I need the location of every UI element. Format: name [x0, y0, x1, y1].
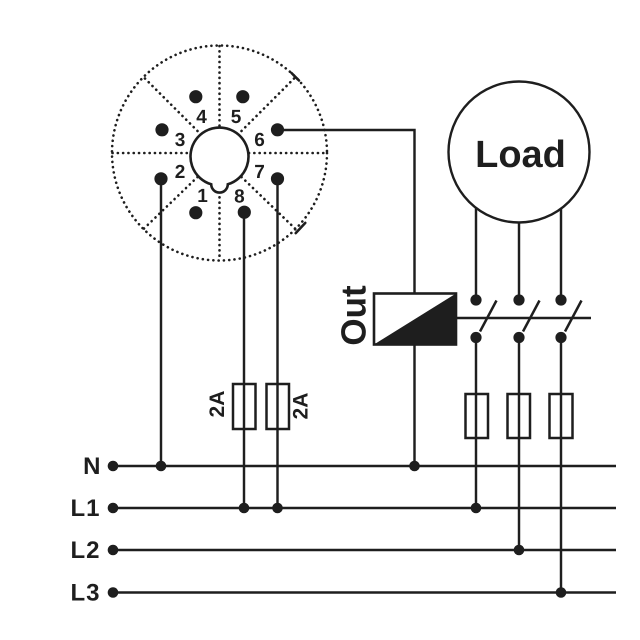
pin 4: [189, 90, 202, 103]
switch contact S2: [513, 294, 539, 343]
fuse F2: [267, 384, 290, 429]
wire load phase 2: [518, 180, 520, 300]
wire pin7 to fuse F2 to L1 bus: [276, 179, 278, 508]
wire pin2 to N bus: [160, 179, 162, 466]
socket sector dotted line SW: [144, 177, 198, 229]
socket sector dotted line SE: [242, 177, 296, 229]
pin 1: [189, 206, 202, 219]
svg-text:1: 1: [197, 186, 208, 207]
svg-text:N: N: [83, 453, 100, 480]
svg-text:2A: 2A: [206, 391, 229, 418]
pin 8: [238, 206, 251, 219]
bus N: [113, 465, 616, 467]
socket center keyway: [191, 128, 249, 193]
node L2 terminal: [108, 545, 119, 556]
socket sector dotted line bottom: [218, 192, 221, 260]
socket sector dotted line left: [113, 152, 191, 155]
socket sector dotted line NE: [242, 77, 296, 131]
switch contact S1: [470, 294, 496, 343]
socket outer circle long dash SE: [296, 223, 306, 233]
node N / relay junction: [409, 461, 420, 472]
node L3 / fuse F5 junction: [556, 587, 567, 598]
wire load phase 1: [475, 160, 477, 300]
svg-text:L2: L2: [70, 537, 100, 564]
node N / pin2 junction: [156, 461, 167, 472]
svg-text:6: 6: [254, 130, 265, 151]
wire load phase 3: [560, 160, 562, 300]
bus L1: [113, 507, 616, 509]
wire switch S2 to fuse F4 to L2: [518, 338, 520, 551]
node L1 terminal: [108, 503, 119, 514]
relay output triangle: [374, 294, 456, 345]
svg-text:4: 4: [196, 107, 207, 128]
svg-text:L3: L3: [70, 580, 100, 607]
pin 2: [154, 172, 167, 185]
svg-text:3: 3: [175, 130, 186, 151]
svg-text:Out: Out: [335, 285, 374, 346]
svg-text:2: 2: [175, 162, 186, 183]
bus L2: [113, 549, 616, 551]
fuse F1: [233, 384, 256, 429]
pin 3: [155, 123, 168, 136]
socket outer circle long dash NE: [292, 73, 300, 81]
svg-text:2A: 2A: [290, 393, 313, 420]
socket outer dotted circle: [112, 46, 327, 261]
relay output box K1: [374, 294, 456, 345]
wire pin8 to fuse F1 to L1 bus: [243, 212, 245, 508]
svg-text:8: 8: [234, 186, 245, 207]
svg-text:5: 5: [231, 107, 242, 128]
pin 5: [236, 90, 249, 103]
wire pin6 horizontal to relay: [278, 130, 415, 466]
fuse F4: [508, 394, 531, 438]
socket sector dotted line NW: [144, 77, 198, 131]
fuse F5: [550, 394, 573, 438]
load M1 circle: [449, 82, 590, 223]
node L1 / fuse F1 junction: [239, 503, 250, 514]
node N terminal: [108, 461, 119, 472]
node L3 terminal: [108, 587, 119, 598]
wire switch S1 to fuse F3 to L1: [475, 338, 477, 509]
socket sector dotted line top: [218, 46, 221, 128]
svg-text:7: 7: [254, 162, 265, 183]
node L2 / fuse F4 junction: [514, 545, 525, 556]
socket sector dotted line right: [249, 152, 327, 155]
wire relay rail to switches: [456, 317, 591, 319]
node L1 / fuse F2 junction: [272, 503, 283, 514]
pin 6: [271, 123, 284, 136]
fuse F3: [466, 394, 489, 438]
wire switch S3 to fuse F5 to L3: [560, 338, 562, 593]
pin 7: [271, 172, 284, 185]
node L1 / fuse F3 junction: [471, 503, 482, 514]
switch contact S3: [555, 294, 581, 343]
svg-text:Load: Load: [475, 134, 566, 176]
svg-text:L1: L1: [70, 495, 100, 522]
bus L3: [113, 591, 616, 593]
